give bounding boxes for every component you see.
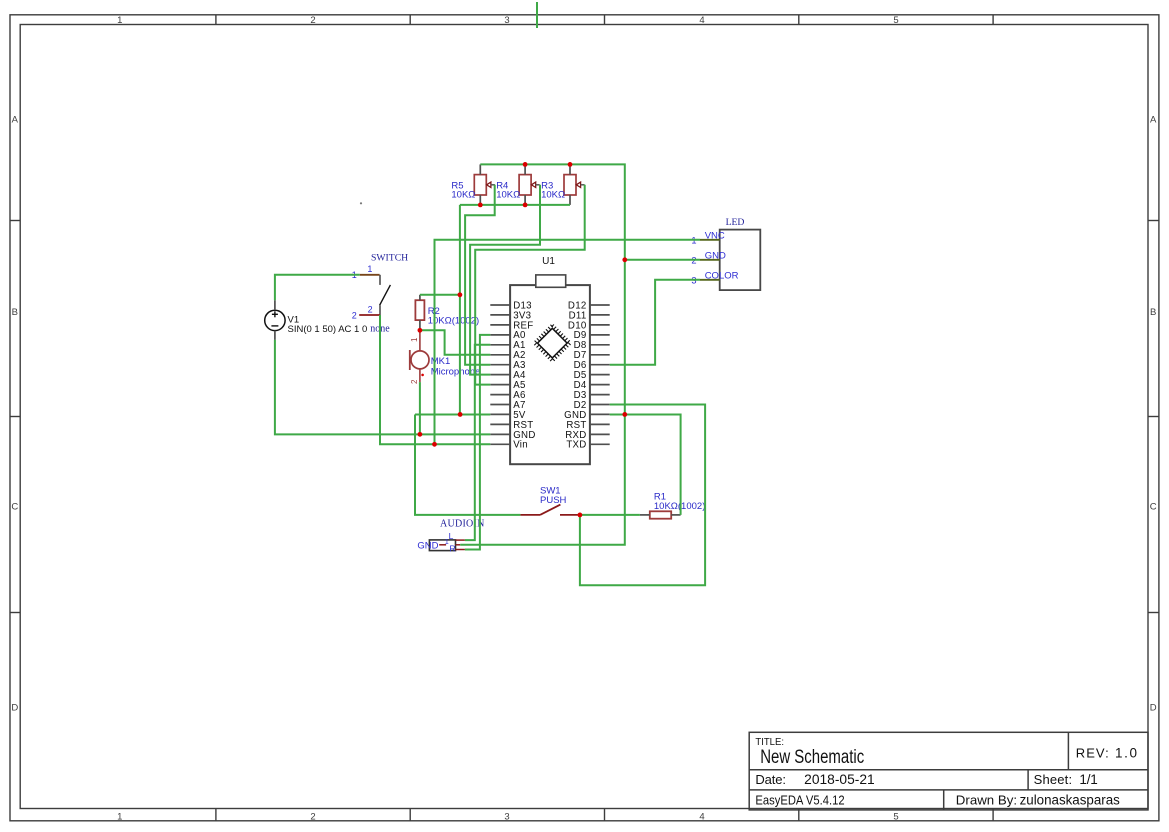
potentiometer R3 <box>564 175 581 195</box>
svg-text:COLOR: COLOR <box>705 271 739 282</box>
junction R4 bottom rail <box>523 203 528 208</box>
U1 crystal notch rect <box>536 275 566 287</box>
svg-text:2: 2 <box>410 379 419 384</box>
svg-text:2: 2 <box>352 310 357 320</box>
junction GND row node <box>418 432 423 437</box>
junction U1 GND node <box>622 412 627 417</box>
title block <box>749 732 1148 810</box>
LED pin 1 VNC <box>700 239 720 241</box>
svg-text:D: D <box>1150 703 1157 714</box>
junction mic/R2 node <box>418 328 423 333</box>
svg-text:1: 1 <box>117 812 122 823</box>
svg-text:1/1: 1/1 <box>1079 772 1097 787</box>
wire pots bottom rail <box>460 204 570 206</box>
microphone MK1 <box>410 332 429 382</box>
junction R5 bottom rail <box>478 203 483 208</box>
svg-text:A: A <box>1150 115 1157 126</box>
svg-text:C: C <box>11 502 18 513</box>
LED pin 2 GND <box>700 259 720 261</box>
wire 5V row <box>415 413 490 415</box>
junction R2 top node <box>458 292 463 297</box>
svg-text:C: C <box>1150 502 1157 513</box>
wire R2 top to rail <box>420 294 460 296</box>
wire R3 wiper to A5 <box>475 185 585 385</box>
wire A0 to audio R <box>465 335 490 550</box>
svg-text:A: A <box>12 115 19 126</box>
wire mic to A2 <box>420 330 490 354</box>
junction SW1/D2 node <box>578 513 583 518</box>
wire V1 minus to GND pin <box>275 340 490 434</box>
wire V1 plus to switch pin1 <box>275 275 360 300</box>
svg-text:2: 2 <box>368 304 373 314</box>
LED pin 3 COLOR <box>700 279 720 281</box>
svg-text:zulonaskasparas: zulonaskasparas <box>1020 793 1120 808</box>
wire pots top rail to GND column to audio sleeve <box>460 164 625 544</box>
canvas origin marker <box>536 2 538 28</box>
svg-text:1: 1 <box>445 539 449 546</box>
svg-text:1: 1 <box>367 264 372 274</box>
svg-text:Sheet:: Sheet: <box>1034 772 1073 787</box>
svg-text:1: 1 <box>410 337 419 342</box>
wire LED VNC to Vin column <box>435 240 701 444</box>
svg-text:10KΩ: 10KΩ <box>451 190 475 201</box>
junction Vin node <box>432 442 437 447</box>
svg-text:3: 3 <box>504 812 509 823</box>
svg-text:5: 5 <box>893 15 898 26</box>
wire LED GND stub <box>625 259 700 261</box>
svg-text:10KΩ: 10KΩ <box>541 190 565 201</box>
svg-text:4: 4 <box>699 15 704 26</box>
svg-text:SWITCH: SWITCH <box>371 252 408 263</box>
wire R4 wiper to A4 <box>470 185 540 375</box>
wire switch pin2 to Vin <box>380 315 490 444</box>
svg-text:4: 4 <box>699 812 704 823</box>
wire SW1 to D2 loop <box>580 405 705 586</box>
resistor R2 <box>415 300 424 320</box>
svg-text:2018-05-21: 2018-05-21 <box>804 772 875 787</box>
potentiometer R5 <box>474 175 491 195</box>
svg-text:L: L <box>449 531 454 541</box>
svg-text:10KΩ: 10KΩ <box>496 190 520 201</box>
voltage source V1 <box>265 310 285 330</box>
svg-text:REV:: REV: <box>1076 746 1109 761</box>
svg-text:New Schematic: New Schematic <box>760 747 864 768</box>
junction 5V node <box>458 412 463 417</box>
svg-text:SIN(0 1 50) AC 1 0: SIN(0 1 50) AC 1 0 <box>288 324 368 335</box>
resistor R1 <box>650 511 671 518</box>
wire mic bottom to GND row <box>419 382 421 434</box>
svg-text:TXD: TXD <box>566 440 586 451</box>
junction R3 top rail <box>568 162 573 167</box>
junction R4 top rail <box>523 162 528 167</box>
svg-text:R: R <box>449 544 455 554</box>
svg-text:1: 1 <box>117 15 122 26</box>
svg-text:D: D <box>11 703 18 714</box>
svg-text:AUDIOIN: AUDIOIN <box>440 518 485 529</box>
svg-text:Drawn By:: Drawn By: <box>956 793 1017 808</box>
svg-text:2: 2 <box>310 15 315 26</box>
wire bottom rail down to 5V pin <box>459 205 461 415</box>
svg-text:B: B <box>1150 307 1156 318</box>
svg-text:Microphone: Microphone <box>431 366 481 377</box>
junction LED GND node <box>622 257 627 262</box>
op IC U1 body <box>510 285 590 464</box>
svg-text:5: 5 <box>893 812 898 823</box>
svg-text:VNC: VNC <box>705 231 725 242</box>
wire R5 wiper to A3 <box>465 185 495 365</box>
U1 chip diamond glyph <box>535 325 571 361</box>
svg-text:U1: U1 <box>542 256 555 267</box>
svg-text:PUSH: PUSH <box>540 495 567 506</box>
svg-text:Date:: Date: <box>755 772 786 787</box>
wire LED COLOR to D6 <box>610 280 700 365</box>
U1 pins <box>490 305 609 444</box>
pushbutton SW1 <box>540 486 567 507</box>
svg-text:EasyEDA V5.4.12: EasyEDA V5.4.12 <box>755 793 844 808</box>
svg-text:GND: GND <box>705 251 726 262</box>
wire A1 to audio L <box>465 345 490 540</box>
svg-text:Vin: Vin <box>513 440 528 451</box>
wires <box>275 164 705 585</box>
wire GND right pin row to R1 column <box>610 414 681 514</box>
wire 5V down to SW1 <box>415 414 520 514</box>
svg-text:2: 2 <box>310 812 315 823</box>
svg-text:B: B <box>12 307 18 318</box>
svg-text:LED: LED <box>726 217 745 228</box>
svg-text:3: 3 <box>504 15 509 26</box>
svg-text:GND: GND <box>417 540 438 551</box>
potentiometer R4 <box>519 175 536 195</box>
stray dot <box>360 202 362 204</box>
wire SW1 to R1 <box>578 514 640 516</box>
svg-text:1.0: 1.0 <box>1115 746 1137 761</box>
